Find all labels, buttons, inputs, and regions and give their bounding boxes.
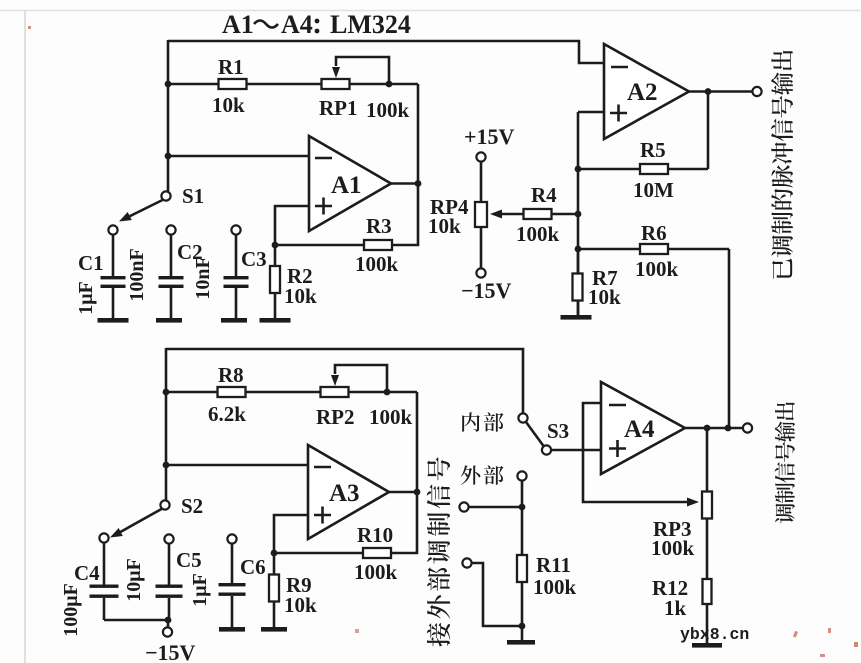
wire: R11 bottom to ground [521, 626, 524, 640]
svg-text:100k: 100k [635, 257, 679, 281]
wire: R3 feedback loop [275, 184, 418, 245]
wire: C4/C5 bottom to -15V [104, 619, 168, 622]
switch S1 [108, 191, 170, 234]
label: internal (nei bu) [462, 412, 503, 431]
svg-text:C1: C1 [78, 251, 104, 275]
resistor R10 [363, 548, 391, 558]
svg-text:10k: 10k [212, 93, 245, 117]
node: junction R6/R7 [575, 246, 582, 253]
svg-text:RP2: RP2 [316, 405, 355, 429]
label: R5 designator [640, 138, 666, 162]
potentiometer RP3 [702, 428, 712, 579]
label: C5 value 10uF [123, 558, 145, 602]
svg-text:1μF: 1μF [189, 573, 211, 607]
svg-text:R1: R1 [218, 55, 244, 79]
node: junction R9/R10/A3 noninverting branch [271, 550, 278, 557]
wire: A2 noninverting input branch [578, 112, 604, 316]
svg-text:R5: R5 [640, 138, 666, 162]
resistor R11 [517, 507, 527, 626]
wire: A1 output [391, 182, 418, 185]
potentiometer RP2 [321, 387, 349, 397]
wire: R8/RP2 feedback rail [166, 392, 417, 492]
label: RP4 designator [430, 195, 469, 219]
label: R7 value 10k [588, 285, 621, 309]
terminal: -15V [476, 268, 485, 277]
svg-text:S1: S1 [182, 184, 204, 208]
resistor R2 [270, 245, 280, 318]
svg-text:10M: 10M [633, 178, 674, 202]
label: R3 designator [366, 214, 392, 238]
label: +15V supply [464, 124, 515, 149]
svg-text:1μF: 1μF [75, 281, 97, 315]
terminal: external modulation input A [459, 502, 468, 511]
svg-text:R11: R11 [536, 553, 571, 577]
node: junction left bus / A1 inverting input [165, 153, 172, 160]
label: R10 value 100k [354, 560, 398, 584]
svg-text:100k: 100k [369, 405, 413, 429]
ground: R11 [507, 640, 535, 645]
op-amp A2 [604, 44, 689, 139]
label: C4 value 100uF [60, 583, 82, 637]
label: R8 designator [218, 363, 244, 387]
resistor R8 [218, 387, 246, 397]
label: R11 value 100k [533, 575, 577, 599]
watermark: ybx8.cn [680, 625, 749, 644]
svg-text:A3: A3 [329, 480, 360, 507]
svg-text:100k: 100k [651, 536, 695, 560]
svg-text:C3: C3 [241, 247, 267, 271]
svg-text:10k: 10k [284, 284, 317, 308]
label: S1 designator [182, 184, 204, 208]
label: RP2 designator [316, 405, 355, 429]
label: external (wai bu) [461, 465, 504, 485]
terminal: external modulation input B [462, 558, 471, 567]
node: junction R4 / A2 summing bus [575, 211, 582, 218]
wire: A3 noninverting input branch [274, 515, 308, 553]
svg-text:R4: R4 [531, 183, 557, 207]
svg-text:RP1: RP1 [319, 96, 358, 120]
label: R1 value 10k [212, 93, 245, 117]
svg-text:C4: C4 [74, 561, 100, 585]
svg-text:C6: C6 [240, 555, 266, 579]
svg-text:A1: A1 [222, 10, 254, 39]
ground: C6 [219, 627, 245, 632]
resistor R4 [490, 209, 578, 219]
label: C3 value 10nF [192, 256, 214, 299]
label: R1 designator [218, 55, 244, 79]
label: R11 designator [536, 553, 571, 577]
label: R9 designator [286, 573, 312, 597]
resistor R6 [578, 244, 729, 428]
svg-text:ybx8.cn: ybx8.cn [680, 625, 749, 644]
node: A2 output junction [705, 88, 712, 95]
wire: input B to ground net [472, 563, 522, 626]
label: -15V (bottom) [145, 640, 196, 663]
node: junction left bus / A3 inverting input [163, 462, 170, 469]
node: A4 output junction (R6 drop) [725, 425, 732, 432]
terminal: modulated pulse output [752, 87, 761, 96]
op-amp A1 [309, 136, 391, 231]
wire: net from A1 timing node to A2 inverting input [168, 41, 603, 63]
label: C1 value 1uF [75, 281, 97, 315]
wire: RP2 wiper bracket [331, 365, 387, 392]
label: title A1~A4: LM324 [222, 10, 411, 39]
svg-text:S2: S2 [181, 494, 203, 518]
resistor R9 [269, 553, 279, 627]
node: junction left bus / feedback rail [165, 81, 172, 88]
label: R10 designator [357, 523, 393, 547]
resistor R3 [364, 240, 392, 250]
svg-text:10μF: 10μF [123, 558, 145, 602]
svg-text:LM324: LM324 [330, 10, 411, 39]
svg-text:100μF: 100μF [60, 583, 82, 637]
svg-text:1k: 1k [664, 596, 687, 620]
svg-text:100k: 100k [516, 222, 560, 246]
ground: R7 [561, 315, 592, 320]
svg-text:100k: 100k [355, 252, 399, 276]
wire: RP1 wiper bracket [332, 57, 389, 84]
capacitor C4 [90, 543, 119, 620]
node: junction RP2 right terminal [384, 389, 391, 396]
terminal: modulation signal output [743, 423, 752, 432]
svg-text:R10: R10 [357, 523, 393, 547]
label: C2 designator [177, 240, 203, 264]
terminal: +15V [476, 152, 485, 161]
label: C5 designator [176, 548, 202, 572]
svg-text:S3: S3 [547, 419, 569, 443]
wire: net from A3 timing node to S3 internal terminal [166, 349, 523, 413]
svg-text:100k: 100k [533, 575, 577, 599]
svg-text:10nF: 10nF [192, 256, 214, 299]
op-amp A4 [601, 382, 685, 474]
op-amp A3 [308, 445, 389, 539]
wire: A3 output [389, 491, 417, 494]
capacitor C3 [224, 225, 249, 318]
wire: A1 noninverting input branch [275, 206, 309, 245]
svg-text:−15V: −15V [145, 640, 196, 663]
capacitor C5 [156, 534, 183, 620]
svg-text:A4: A4 [624, 416, 655, 443]
node: junction -15V net [165, 617, 172, 624]
node: junction external input / R11 [519, 504, 526, 511]
wire: A4 output [685, 427, 743, 430]
label: R3 value 100k [355, 252, 399, 276]
label: modulated pulse signal output (vertical) [771, 50, 793, 278]
capacitor C6 [219, 534, 246, 627]
label: R12 designator [652, 576, 688, 600]
label: RP2 value 100k [369, 405, 413, 429]
label: RP1 designator [319, 96, 358, 120]
label: C3 designator [241, 247, 267, 271]
ground: C1 [98, 318, 129, 323]
label: RP1 value 100k [366, 98, 410, 122]
ground: C2 [156, 318, 182, 323]
wire: R10 feedback loop [274, 492, 417, 553]
svg-text:10k: 10k [284, 593, 317, 617]
resistor R1 [219, 79, 247, 89]
terminal: external input top [517, 471, 526, 480]
label: -15V supply [461, 278, 512, 303]
ground: C3 [221, 318, 247, 323]
svg-text:10k: 10k [428, 214, 461, 238]
ground: R9 [261, 627, 287, 632]
resistor R7 [573, 249, 583, 316]
label: R4 value 100k [516, 222, 560, 246]
label: connect external modulation signal (vertical) [427, 457, 450, 646]
potentiometer RP1 [322, 79, 350, 89]
label: S2 designator [181, 494, 203, 518]
svg-text:6.2k: 6.2k [208, 402, 246, 426]
svg-text:100nF: 100nF [126, 248, 148, 301]
label: C6 designator [240, 555, 266, 579]
label: R6 designator [641, 221, 667, 245]
wire: A4 inverting input to RP3 wiper [583, 403, 699, 507]
node: A1 output junction [415, 180, 422, 187]
label: RP3 value 100k [651, 536, 695, 560]
svg-text:R8: R8 [218, 363, 244, 387]
wire: S3 pole to A4 noninverting input [551, 449, 601, 452]
svg-text:100k: 100k [354, 560, 398, 584]
svg-text:C5: C5 [176, 548, 202, 572]
terminal: -15V (bottom) [163, 620, 172, 637]
label: R9 value 10k [284, 593, 317, 617]
node: junction R5 / A2 summing bus [575, 166, 582, 173]
ground: R12 [692, 643, 722, 648]
wire: left timing bus (bottom section) [165, 348, 168, 500]
svg-text:100k: 100k [366, 98, 410, 122]
label: RP4 value 10k [428, 214, 461, 238]
capacitor C1 [101, 235, 126, 318]
resistor R5 [578, 92, 708, 175]
label: C4 designator [74, 561, 100, 585]
svg-text:+15V: +15V [464, 124, 515, 149]
label: C1 designator [78, 251, 104, 275]
label: R7 designator [592, 266, 618, 290]
wire: input A to R11 top [469, 506, 522, 509]
svg-text:A2: A2 [627, 79, 658, 106]
node: A3 output junction [414, 489, 421, 496]
wire: A2 output [689, 90, 753, 93]
ground: R2 [260, 318, 291, 323]
capacitor C2 [159, 225, 184, 318]
label: modulation signal output (vertical) [775, 402, 795, 523]
label: R2 designator [287, 264, 313, 288]
node: junction left bus / R8 rail [163, 389, 170, 396]
label: R8 value 6.2k [208, 402, 246, 426]
label: R2 value 10k [284, 284, 317, 308]
resistor R12 [703, 579, 712, 643]
node: junction RP1 right terminal [386, 81, 393, 88]
label: C6 value 1uF [189, 573, 211, 607]
svg-text:R6: R6 [641, 221, 667, 245]
wire: A3 inverting input [166, 464, 308, 467]
potentiometer RP4 [475, 162, 487, 268]
label: S3 designator [547, 419, 569, 443]
switch S3 [518, 413, 551, 454]
svg-text:10k: 10k [588, 285, 621, 309]
wire: left timing bus (top section) [167, 40, 170, 192]
label: RP3 designator [653, 517, 692, 541]
svg-text:A4: A4 [281, 10, 313, 39]
node: junction R2/R3/A1 noninverting branch [272, 242, 279, 249]
node: A4 output junction (RP3) [704, 425, 711, 432]
wire: external terminal to R11 [521, 481, 524, 507]
svg-text:A1: A1 [331, 172, 362, 199]
label: R4 designator [531, 183, 557, 207]
svg-text:−15V: −15V [461, 278, 512, 303]
node: junction R11 bottom / ground net [519, 623, 526, 630]
label: C2 value 100nF [126, 248, 148, 301]
switch S2 [99, 500, 169, 542]
label: R12 value 1k [664, 596, 687, 620]
wire: R1/RP1 feedback rail [168, 84, 418, 184]
wire: A1 inverting input [168, 155, 309, 158]
label: R5 value 10M [633, 178, 674, 202]
svg-text:R3: R3 [366, 214, 392, 238]
label: R6 value 100k [635, 257, 679, 281]
